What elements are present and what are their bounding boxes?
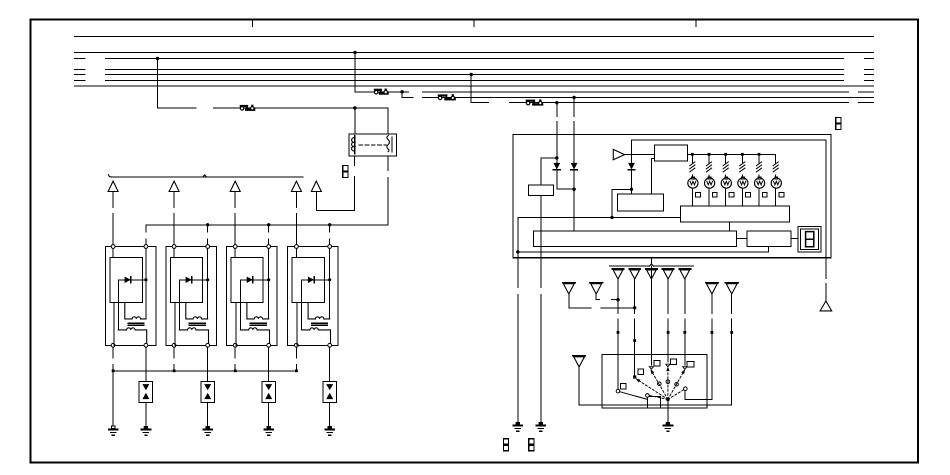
relay switch contact [387,136,390,152]
coil 4 bottom terminal C [295,343,299,347]
coil 1 wire diode anode down to secondary [117,280,119,330]
wire tower 1 to distributor bank [691,188,693,206]
sensor connector triangle S4 [726,282,738,284]
wire supply branch to voltage regulator [541,157,557,159]
node on L3 feeding main fuse [156,57,159,60]
ignition coil unit 4 outer case [288,247,339,346]
coil 2 wire diode anode down to secondary [178,280,180,330]
distributor cap contact 2 (pickup) [633,375,636,378]
output connector triangle P4 [663,268,674,270]
ignition pulse wire to distributor (crosses rail) [650,258,652,264]
timing control box A [655,145,688,161]
node ECU ground rail [516,250,519,253]
connector triangle T1 [108,181,118,191]
wire driver to display [791,238,798,240]
wire amplifier to timing control box [625,154,655,156]
node on L2 feeding relay circuit [353,51,356,54]
coil 1 terminal A [111,245,115,249]
wire coil 1 terminal C to ground bus (inline break) [112,347,114,358]
wire P5 to distributor contact (inline break) [684,279,686,313]
cylinder number box 4 [746,192,751,197]
wire suppressor 2 to ground [207,403,209,427]
coil 3 secondary winding [240,328,269,344]
ECU rail left leg [517,217,519,252]
fuse F3 on y=97 feed [439,94,447,96]
wire coil 4 terminal D to noise suppressor [329,347,331,382]
frame tick mark 1 [252,20,254,27]
resistor R5 [758,154,760,163]
terminal number box 4 [670,359,676,365]
node output 4 [741,153,744,156]
connector squares at G6 [503,439,508,445]
wire to coil 4 terminal B (inline break) [329,225,331,232]
relay coil winding [354,136,356,155]
wire T4 to coil 4 terminal A (inline break) [295,192,297,208]
coil 2 igniter inner box [170,258,202,303]
bus wire L1 (+B) [75,36,874,38]
coil 1 primary winding [125,303,146,319]
coil 4 wire terminal A to igniter [295,248,297,257]
coil 1 internal diode [118,279,146,281]
spark gap tower 1 [688,178,698,188]
wire P2 to distributor contact (inline break) [634,279,636,313]
output connector triangle P5 [679,268,690,270]
ground G5 [328,426,332,429]
input amplifier triangle U1 [613,149,624,159]
distributor ground wire [667,399,669,422]
driver output rail [688,153,776,155]
voltage regulator box [529,185,554,196]
fuse F2 on y=91 feed [375,89,381,91]
ECU internal top rail [632,139,826,141]
resistor R6 [775,154,777,163]
ignition coil unit 1 outer case [106,247,157,346]
coil 2 terminal A [172,245,176,249]
wire suppressor 1 to ground [145,403,147,427]
junction mark on P5 wire [683,331,686,334]
junction on ground bus 2 [173,369,176,372]
cylinder number box 6 [779,192,784,197]
node D3 output [630,188,633,191]
ground G1 (bolt type) [111,426,115,429]
node on P1 wire [616,298,619,301]
rotor center [666,398,670,402]
noise suppressor diode pack 1 [139,382,152,403]
wire down to relay coil terminal [354,108,356,134]
coil 2 core [189,322,205,324]
node feeding coil 4 [328,223,331,226]
junction on ground bus 1 [112,369,115,372]
node supply 1 branch to regulator [555,156,558,159]
coil 4 terminal A [295,245,299,249]
rotor arm dashed sweep [637,379,668,399]
coil 3 terminal B [267,245,271,249]
wire T1 to coil 1 terminal A (inline break) [112,192,114,208]
node where relay coil taps supply [353,106,356,109]
wire top rail down through diode D3 [631,140,633,162]
coil 3 internal diode [240,279,268,281]
coil 3 core [250,322,266,324]
relay switch output wire with inline break [387,156,389,171]
ECU supply wire 1 (from y=102 feed, inline break) [556,103,558,117]
feed wire at y=91 to right edge [355,91,409,93]
feed wire at y=102 to right edge [471,102,488,104]
wire coil 1 terminal D to noise suppressor [145,347,147,382]
wire to coil 1 terminal B (inline break) [145,225,147,232]
resistor R1 [691,154,693,163]
node feeding coil 2 [206,223,209,226]
coil 4 secondary winding [302,328,331,344]
wire to coil 3 terminal B (inline break) [268,225,270,232]
wire coil 3 terminal C to ground bus (inline break) [234,347,236,358]
connector squares top right [836,117,841,123]
spark gap tower 4 [738,178,748,188]
relay fixed contact bar [391,137,393,152]
coil 2 bottom terminal C [172,343,176,347]
wire tower 2 to distributor bank [708,188,710,206]
cylinder number box 1 [696,192,701,197]
connector rail above coil triangles [111,176,304,178]
coil 1 wire igniter to terminal C [113,303,115,346]
spark gap tower 5 [755,178,765,188]
bus wire L5 [75,74,86,76]
node output 5 [758,153,761,156]
cylinder number box 2 [712,192,717,197]
junction mark on P4 wire [667,331,670,334]
bus wire L4 [75,69,86,71]
wire tower 3 to distributor bank [725,188,727,206]
node at fuse F2 output [400,90,403,93]
display driver box [747,231,791,247]
coil 4 bottom terminal D [328,343,332,347]
wire tower 4 to distributor bank [741,188,743,206]
coil ground bus wire [113,370,297,372]
diagnostic connector triangle [820,301,832,311]
node D2 rail [572,188,575,191]
terminal number box 2 [638,369,644,375]
sensor connector triangle S2 [590,282,602,284]
node output 1 [691,153,694,156]
coil 3 primary winding [247,303,269,319]
connector squares near relay [343,165,348,171]
coil 3 bottom terminal D [267,343,271,347]
ground G6 [516,422,520,425]
bus wire L6 [75,80,86,82]
coil 4 igniter inner box [292,258,324,303]
ECU supply wire 2 (from y=97 feed, inline break) [573,98,575,117]
fuse F4 on y=102 feed [527,100,534,102]
spark gap tower 6 [771,178,781,188]
distributor cap contact 3 [649,367,653,370]
7-segment diagnostic display [798,227,821,252]
connector squares at G7 [529,439,534,445]
wire coil 2 terminal C to ground bus (inline break) [173,347,175,358]
ground G2 [144,426,148,429]
noise suppressor diode pack 3 [262,382,275,403]
wire coil 2 terminal D to noise suppressor [207,347,209,382]
ground G7 [539,422,543,425]
relay actuation dashed link [359,144,387,146]
diode D3 [628,163,635,170]
coil positive distribution wire [146,224,388,226]
fused supply wire to ignition coil relay [158,107,196,109]
connector triangle T5 [311,181,321,191]
wire bank to microprocessor [729,222,731,231]
wire S3 to distributor pickup (inline break) [711,294,713,313]
distributor shaft block [647,396,660,408]
coil 2 internal diode [179,279,207,281]
wire coil 4 terminal C to ground bus (inline break) [295,347,297,358]
coil 2 wire igniter to terminal C [174,303,176,346]
frame tick mark 3 [695,20,697,27]
coil 1 wire terminal A to igniter [112,248,114,257]
terminal number box 5 [687,361,694,367]
distributor case [602,355,707,409]
resistor R2 [708,154,710,163]
bus wire L3 [75,58,86,60]
distributor cap contact 1 [616,389,620,393]
junction on ground bus 4 [295,369,298,372]
junction mark on P1 wire [617,331,620,334]
distributor drive bank box [681,206,790,222]
wire contact 1 to shaft [620,392,648,400]
noise suppressor diode pack 2 [201,382,214,403]
wire suppressor 3 to ground [268,403,270,427]
cylinder number box 5 [762,192,767,197]
coil 1 wire terminal B down to primary [145,248,147,319]
fuse F1 on coil supply [241,105,247,107]
coil 2 wire terminal B down to primary [207,248,209,319]
node on y=102 feed at ECU supply drop [555,101,558,104]
branch from F2 node down to y=97 feed [401,92,403,98]
coil 4 core [311,322,327,324]
coil 1 terminal B [144,245,148,249]
coil 2 secondary winding [179,328,208,344]
wire microprocessor to display driver [737,238,748,240]
coil 3 igniter inner box [231,258,263,303]
ECU (igniter / spark control module) case [513,135,831,258]
ECU lower rail to display driver [518,251,769,253]
node output 2 [708,153,711,156]
junction on ground bus 3 [234,369,237,372]
coil 3 wire diode anode down to secondary [239,280,241,330]
coil 1 bottom terminal C [111,343,115,347]
coil 2 terminal B [206,245,210,249]
wire to output connector rail [825,140,827,258]
node on y=97 feed at ECU supply drop [572,96,575,99]
wire S4 to distributor base (inline break) [731,294,733,313]
coil 1 core [128,322,144,324]
wire from L3 node down [157,59,159,109]
coil 1 igniter inner box [110,258,142,303]
wire ground bus to ground G1 [112,371,114,426]
frame tick mark 2 [473,20,475,27]
bus wire L2 [75,52,874,54]
wire P1 to distributor contact (inline break) [617,279,619,313]
node on rail from control box [610,216,613,219]
coil 3 wire igniter to terminal C [235,303,237,346]
connector triangle T4 [291,181,301,191]
branch D3 node to rail [612,188,632,190]
output connector triangle P1 [612,268,623,270]
coil 1 bottom terminal D [144,343,148,347]
connector triangle T3 [230,181,240,191]
wire T3 to coil 3 terminal A (inline break) [234,192,236,208]
noise suppressor diode pack 4 [323,382,336,403]
ignition coil unit 3 outer case [226,247,276,346]
wire coil 3 terminal D to noise suppressor [268,347,270,382]
coil 3 bottom terminal C [233,343,237,347]
terminal number box 3 [654,361,660,367]
wire box A to control box B [651,158,654,160]
coil 4 wire igniter to terminal C [296,303,298,346]
connector triangle T2 [169,181,179,191]
wire S1 to P2 wire (inline break) [568,294,570,308]
sensor connector triangle S1 [563,282,575,284]
coil 3 terminal A [233,245,237,249]
control box B [618,194,664,211]
resistor R3 [725,154,727,163]
feed wire at y=97 to right edge [402,97,413,99]
node output 3 [724,153,727,156]
wire down to relay switch terminal [387,108,389,134]
ground G8 [666,422,670,425]
wire to connector triangle T5 [317,210,355,212]
output connector triangle P3 [646,268,657,270]
node feeding coil 3 [267,223,270,226]
resistor R4 [741,154,743,163]
wire to coil 2 terminal B (inline break) [207,225,209,232]
ECU reverse-protection diode D1 [556,158,558,163]
diagnostic output wire (inline break) [825,258,827,279]
connector triangle S5 at distributor [573,355,585,357]
regulator ground wire leaving ECU (inline break) [540,196,542,288]
relay coil output wire with inline break [354,156,356,166]
wire tower 5 to distributor bank [758,188,760,206]
ignition coil unit 2 outer case [166,247,217,346]
coil 3 wire terminal B down to primary [268,248,270,319]
coil 4 terminal B [328,245,332,249]
coil 4 wire terminal B down to primary [329,248,331,319]
spark gap tower 2 [705,178,715,188]
bus wire L7 [75,85,874,87]
wire D1 output joining D2 rail [557,188,574,190]
wire S5 to base wire [578,367,580,405]
coil 2 bottom terminal D [206,343,210,347]
ECU reverse-protection diode D2 [571,163,578,170]
coil 2 wire terminal A to igniter [173,248,175,257]
wire S2 to P1 wire (inline break) [595,294,597,300]
distributor cap contact 5 [683,367,687,370]
rotor contact circles [646,394,650,398]
coil 4 internal diode [302,279,330,281]
cylinder number box 3 [729,192,734,197]
node on L5 feeding ECU fuse [470,73,473,76]
wire from L2 node down to feed line [354,53,356,92]
wire P4 to distributor contact (inline break) [667,279,669,313]
coil 1 secondary winding [118,328,146,344]
wire tower 6 to distributor bank [775,188,777,206]
ignition coil relay box [349,134,397,156]
sensor connector triangle S3 [706,282,718,284]
coil 4 wire diode anode down to secondary [301,280,303,330]
distributor cap contact 4 [666,364,670,367]
coil 2 primary winding [186,303,208,319]
microprocessor box [534,231,737,247]
coil 3 wire terminal A to igniter [234,248,236,257]
ECU output connector rail [610,265,650,267]
coil 4 primary winding [308,303,330,319]
ECU ground wire leaving case (inline break) [517,252,519,288]
spark gap tower 3 [721,178,731,188]
distributor base wire [579,404,732,406]
junction mark on P2 wire [633,339,636,342]
ground G4 [267,426,271,429]
wire from L5 node down to y=102 feed [470,75,472,103]
ground G3 [206,426,210,429]
output connector triangle P2 [629,268,640,270]
wire T2 to coil 2 terminal A (inline break) [173,192,175,208]
ECU internal rail to driver bank [518,216,681,218]
wire suppressor 4 to ground [329,403,331,427]
terminal number box 1 [620,383,626,389]
node on P2 wire [633,306,636,309]
